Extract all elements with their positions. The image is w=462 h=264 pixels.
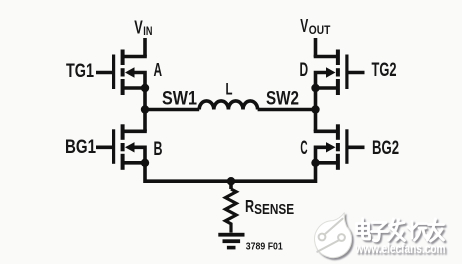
svg-text:3789 F01: 3789 F01	[246, 242, 283, 253]
svg-text:IN: IN	[143, 26, 152, 38]
wire SW1 to inductor	[145, 108, 199, 112]
wire left rail A-SW1-BG1	[143, 88, 147, 131]
svg-text:TG2: TG2	[372, 60, 397, 81]
wire VOUT lead	[314, 38, 318, 57]
resistor RSENSE zigzag	[225, 189, 236, 233]
logo ring right	[338, 234, 345, 241]
svg-text:L: L	[226, 81, 233, 99]
svg-text:www.elecfans.com: www.elecfans.com	[355, 241, 446, 256]
transistor TG2	[311, 50, 364, 96]
wire right rail D-SW2-BG2	[314, 88, 318, 131]
node RSENSE junction	[227, 177, 235, 185]
logo inner details	[317, 219, 345, 252]
svg-text:BG1: BG1	[65, 137, 96, 158]
logo ring left	[319, 234, 326, 241]
svg-text:V: V	[134, 17, 143, 37]
svg-text:SW1: SW1	[162, 88, 197, 110]
svg-text:OUT: OUT	[309, 25, 331, 37]
svg-text:SW2: SW2	[266, 88, 299, 110]
node SW1 junction	[141, 105, 149, 113]
svg-text:D: D	[300, 60, 309, 81]
svg-text:V: V	[300, 16, 308, 36]
transistor BG2	[311, 124, 364, 170]
svg-text:BG2: BG2	[372, 138, 399, 159]
logo diag line up	[325, 219, 343, 235]
svg-text:TG1: TG1	[66, 61, 94, 82]
svg-text:SENSE: SENSE	[254, 201, 294, 218]
svg-text:B: B	[154, 139, 163, 160]
logo circle with tail	[315, 213, 352, 258]
svg-text:R: R	[245, 196, 254, 216]
svg-text:C: C	[300, 138, 307, 159]
logo diag line down	[317, 240, 339, 252]
inductor L	[199, 101, 257, 110]
transistor TG1	[96, 50, 149, 96]
node SW2 junction	[311, 105, 319, 113]
wire inductor to SW2	[258, 108, 316, 112]
wire rsense top stub	[229, 181, 233, 189]
wire bottom rail	[145, 163, 316, 181]
wire VIN lead	[143, 38, 147, 57]
hanzi strokes white pass	[357, 219, 444, 242]
svg-text:A: A	[154, 59, 163, 80]
transistor BG1	[96, 124, 149, 170]
